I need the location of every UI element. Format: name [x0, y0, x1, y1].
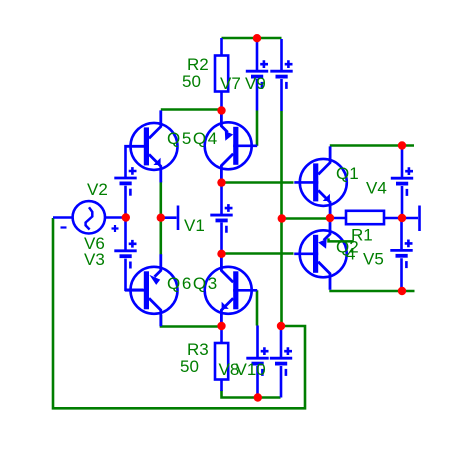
svg-text:V3: V3: [84, 250, 105, 269]
wire stub near Q2 label: [329, 238, 354, 241]
wire V9 minus long vertical down to V10 plus: [280, 111, 283, 326]
junction dot D2: [157, 214, 165, 222]
junction dot D1: [122, 213, 130, 221]
probe terminal right tap: [402, 206, 420, 232]
transistor Q1: [294, 146, 347, 218]
wire Q5 emitter to Q6 emitter vertical: [160, 181, 163, 256]
junction dot D12: [398, 141, 406, 149]
battery V10: [270, 326, 292, 398]
junction dot D3: [217, 106, 225, 114]
wire Q6 collector elbow to R3 top junction: [161, 315, 222, 327]
junction dot D14: [398, 287, 406, 295]
svg-text:V10: V10: [236, 360, 266, 379]
wire mid branch to emitters of Q1 Q2: [282, 217, 331, 220]
wire bottom: R3 bottom to V8 V10 minus: [222, 390, 281, 398]
svg-text:V1: V1: [184, 216, 205, 235]
battery V3: [114, 218, 143, 290]
junction dot D13: [398, 214, 406, 222]
svg-text:Q1: Q1: [336, 164, 359, 183]
svg-text:V9: V9: [245, 74, 266, 93]
junction dot D4: [253, 34, 261, 42]
battery V1: [210, 183, 232, 254]
svg-text:Q5Q4: Q5Q4: [167, 129, 219, 148]
wire node B horizontal: Q3 collector to Q2 base: [222, 252, 294, 255]
svg-text:V7: V7: [220, 74, 241, 93]
junction dot D10: [278, 214, 286, 222]
junction dot D7: [217, 322, 225, 330]
battery V5: [390, 218, 412, 291]
transistor Q4: [205, 110, 258, 182]
probe terminal V1 tap: [161, 206, 178, 231]
wire V7 minus down to Q4 base: [256, 111, 259, 146]
battery V4: [391, 146, 413, 219]
junction dot D11: [326, 214, 334, 222]
wire top rail from R2 top to V9 top: [222, 37, 282, 40]
svg-text:V5: V5: [363, 250, 384, 269]
wire Q3 base down to V8 plus: [256, 290, 259, 325]
junction dot D6: [217, 250, 225, 258]
wire Q5 collector to R2 bottom junction: [161, 108, 222, 111]
transistor Q5: [125, 110, 178, 182]
svg-text:V2: V2: [87, 180, 108, 199]
svg-text:4: 4: [346, 245, 355, 264]
wire V10 plus to outer loop: right, down, bottom rail, left rail up to V6: [53, 218, 305, 408]
junction dot D8: [254, 393, 262, 401]
battery V8: [246, 326, 268, 398]
battery V2: [114, 146, 144, 217]
resistor R1: [330, 211, 402, 224]
battery V9: [270, 39, 292, 111]
svg-text:50: 50: [182, 72, 201, 91]
wire node A horizontal: Q4 collector to Q1 base: [222, 181, 294, 184]
battery V7: [246, 38, 268, 111]
svg-text:Q6Q3: Q6Q3: [167, 274, 219, 293]
transistor Q3: [205, 254, 258, 326]
transistor Q6: [125, 254, 178, 326]
source V6 (sine): [53, 201, 126, 233]
wire Q2 collector bottom rail to V5 minus: [329, 290, 414, 293]
junction dot D5: [217, 178, 225, 186]
svg-text:50: 50: [180, 357, 199, 376]
svg-text:V4: V4: [366, 179, 387, 198]
transistor Q2: [294, 218, 347, 290]
wire Q1 collector top rail to V4 plus: [330, 144, 414, 147]
resistor R3: [215, 326, 228, 391]
junction dot D9: [277, 322, 285, 330]
resistor R2: [215, 38, 228, 111]
